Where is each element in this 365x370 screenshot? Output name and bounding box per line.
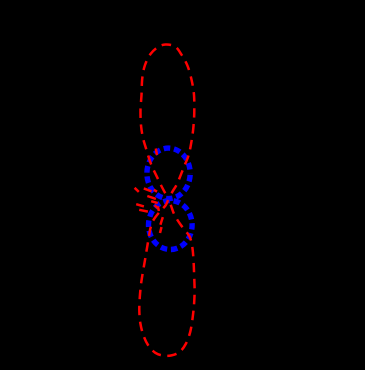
red main lobe top xyxy=(140,44,194,199)
minor lobe 159deg edge dash xyxy=(144,188,152,191)
minor lobe 214deg tip dash xyxy=(155,205,159,209)
minor lobe 187deg outer dash xyxy=(136,204,144,206)
minor lobe 174deg edge dash xyxy=(147,196,156,199)
minor lobe 193deg edge dash xyxy=(139,210,148,212)
minor lobe 148deg dash xyxy=(154,190,157,192)
minor lobe 252deg dash xyxy=(160,217,162,225)
blue pattern lower circle xyxy=(149,201,193,250)
blue pattern upper circle xyxy=(147,148,190,199)
minor lobe 256deg outer dash xyxy=(160,227,162,233)
minor lobe 162deg tip dash xyxy=(135,188,139,192)
red main lobe bottom xyxy=(139,199,194,356)
minor lobe 188deg inner dash xyxy=(151,201,158,203)
minor lobe 104deg tip dash xyxy=(156,149,157,156)
minor lobe 223deg inner dash xyxy=(158,206,159,211)
